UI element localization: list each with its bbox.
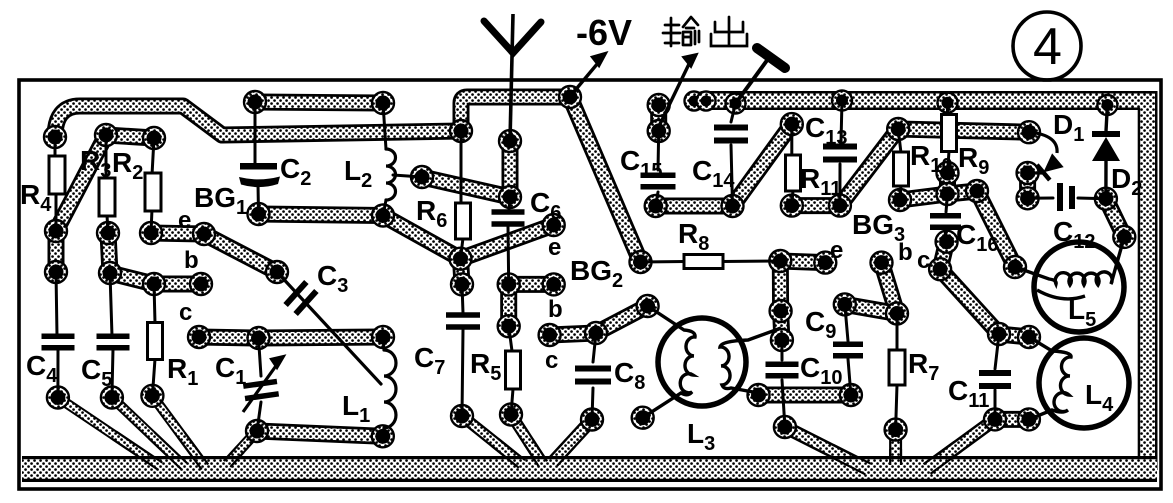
wire C13 to R10 diagonal [840, 129, 898, 206]
pad L5 link [966, 180, 988, 202]
wire R5 leads [509, 326, 513, 414]
wire C15-C14 bottom row [656, 198, 733, 215]
pad R1 bottom [141, 385, 163, 407]
pad L5 left [1004, 256, 1026, 278]
capacitor C15 [641, 173, 676, 190]
wire BG2 b row [509, 276, 554, 293]
svg-text:b: b [184, 247, 199, 274]
resistor R11 [786, 155, 801, 191]
svg-text:e: e [548, 234, 561, 261]
wire right edge band [1138, 91, 1158, 470]
pad R5 bottom [500, 404, 522, 426]
wire C10 ground wedge [785, 427, 868, 469]
wire R1 leads [152, 284, 155, 396]
wire C3 line [277, 272, 381, 384]
wire C1-L1 bottom row [257, 431, 383, 436]
wire C16 leads [945, 194, 948, 242]
capacitor C1 variable [243, 379, 279, 402]
pad antenna lower [499, 186, 521, 208]
board border frame [19, 80, 1161, 489]
capacitor C13 [823, 144, 857, 163]
pad R5 top [498, 315, 520, 337]
capacitor C4 [42, 334, 75, 351]
wire BG2 b down link [500, 284, 517, 326]
wire C5 leads [110, 273, 113, 398]
wire L1 top lead [383, 337, 384, 350]
pad L3 right link [770, 300, 792, 322]
pad junction upper [450, 248, 472, 270]
wire top -6V rail band [703, 91, 1140, 110]
wire R11 leads [792, 124, 793, 206]
resistor R3 [99, 178, 115, 216]
pad C1 top [248, 327, 270, 349]
capacitor C5 [97, 334, 130, 351]
wire C10 leads [782, 340, 785, 427]
pad C13 bottom [829, 195, 851, 217]
wire L5 left diagonal [977, 191, 1015, 267]
wire L2 to junction diagonal [383, 216, 461, 259]
svg-text:e: e [178, 207, 191, 234]
svg-text:-6V: -6V [576, 12, 632, 53]
inductor L1 coil [384, 350, 396, 428]
wire link to L5 pad [948, 191, 978, 194]
wire L2 bottom lead [383, 200, 386, 216]
wire R2 leads [151, 138, 154, 233]
pad L5 right link [1113, 226, 1135, 248]
pad L2 tap [411, 166, 433, 188]
wire BG1 e diagonal [204, 234, 277, 272]
pad BG2 b [543, 273, 565, 295]
wire C1 ground wedge [227, 431, 257, 464]
wire C13 leads [840, 101, 842, 206]
pad C4 bottom [47, 387, 69, 409]
wire R6 leads [461, 131, 464, 259]
pad C16 bottom [936, 231, 958, 253]
wire R7 leads [896, 314, 897, 430]
wire C4 ground wedge [58, 398, 160, 467]
wire C15 top pads [650, 105, 667, 131]
svg-text:b: b [898, 239, 913, 266]
pad C2 bottom [248, 203, 270, 225]
pad C14 bottom [722, 195, 744, 217]
inductor L5 [1015, 237, 1124, 332]
wire D2 to L5 diagonal [1106, 199, 1124, 237]
pad C14 top [726, 94, 746, 114]
wire long top-left trace [55, 106, 461, 137]
resistor R4 [49, 156, 65, 194]
pad R1 top [143, 273, 165, 295]
wire C4 leads [56, 272, 58, 398]
pad BG3 e [814, 252, 836, 274]
wire L1 bottom lead [383, 428, 384, 436]
svg-text:c: c [545, 347, 558, 374]
capacitor C8 [575, 366, 611, 385]
wire C2 bottom row [259, 214, 384, 216]
pad R8 right [769, 250, 791, 272]
pad R11 top [781, 113, 803, 135]
wire C16 pad link [940, 242, 947, 270]
pad c link [585, 322, 607, 344]
antenna [484, 14, 541, 141]
pad C5 top [99, 262, 121, 284]
pad R9 bottom [937, 162, 959, 184]
inductor L3 [643, 306, 781, 418]
pad C5 bottom [101, 387, 123, 409]
capacitor C16 [930, 213, 961, 230]
pad L3 upper link [637, 295, 659, 317]
wire R8 right to BG3 e [780, 261, 825, 263]
wire BG2 e diagonal [461, 225, 554, 259]
wire BG1 b row [110, 273, 201, 284]
wire R8 leads [641, 261, 781, 262]
resistor R8 [684, 255, 723, 269]
wire -6V diagonal to R8 [570, 97, 641, 262]
pad band end left [685, 92, 704, 111]
wire BG3 b row [845, 304, 897, 313]
pad R7 top [886, 303, 908, 325]
capacitor C14 [714, 125, 748, 144]
pad C4 lower [45, 261, 67, 283]
svg-text:b: b [548, 296, 563, 323]
wire R11-C13 bottom row [792, 197, 840, 214]
pad C12 right [1095, 188, 1117, 210]
pad R11 bottom [781, 195, 803, 217]
pad C15 bottom [645, 195, 667, 217]
wire C14 to R11 diagonal [733, 124, 792, 206]
pad C13 top [832, 91, 852, 111]
capacitor C9 [833, 342, 863, 359]
wire R4 leads [55, 137, 56, 231]
wire R9 bottom link [939, 173, 956, 194]
wire R10 leads [898, 129, 901, 200]
wire C12 leads [1028, 197, 1106, 201]
pad junction lower C7 [451, 273, 473, 295]
wire right edge pattern [1140, 94, 1155, 470]
capacitor C10 [766, 362, 799, 379]
pad C11 top [988, 323, 1010, 345]
wire C9 leads [845, 304, 851, 395]
wire top rail pattern [703, 94, 1145, 108]
pad R2 top [143, 127, 165, 149]
wire C6 leads [508, 197, 510, 284]
pad R8 left [630, 251, 652, 273]
wire R9 leads [948, 103, 950, 173]
wire C10 row [759, 387, 851, 404]
capacitor C2 [239, 163, 280, 187]
pad BG3 c [929, 258, 951, 280]
pad BG2 e [543, 214, 565, 236]
pad C15 upper [648, 94, 670, 116]
pad C11 bottom [984, 408, 1006, 430]
pad C10 bottom [774, 416, 796, 438]
wire L2 tap link [422, 177, 510, 197]
wire R7 ground stub [889, 430, 902, 465]
wire R6top to -6V node [461, 97, 570, 131]
wire R10 bottom row [900, 194, 948, 200]
pad D2 top [1097, 95, 1117, 115]
pad R3 top [95, 124, 117, 146]
pad C3 end [266, 261, 288, 283]
wire L2 top lead [383, 103, 386, 149]
arrow -6V [572, 63, 598, 94]
pad band end right [697, 92, 716, 111]
wire D1 pad link [1019, 173, 1036, 198]
wire R3 bottom link [108, 233, 110, 273]
pad C12 left [1017, 187, 1039, 209]
arrow C1 variable [243, 363, 278, 412]
wire C14 leads [731, 104, 736, 207]
pad R3 bottom [97, 222, 119, 244]
svg-text:4: 4 [1033, 18, 1062, 76]
wire BG1 c row [199, 337, 383, 338]
wire bottom ground band [22, 456, 1157, 482]
pad C10 row left [748, 384, 770, 406]
svg-text:c: c [179, 299, 192, 326]
pad BG1 e [193, 223, 215, 245]
capacitor C7 [446, 312, 480, 330]
wire antenna pad link [502, 141, 519, 197]
resistor R5 [506, 351, 521, 389]
wire C2 leads [255, 102, 259, 214]
pad L4 bottom link [1018, 408, 1040, 430]
pad L2 top [372, 92, 394, 114]
wire C15 leads [656, 131, 659, 206]
diode D1 [1028, 132, 1065, 180]
pad C15 lower [648, 120, 670, 142]
wire C8 leads [592, 333, 596, 420]
pad L1 bottom [372, 425, 394, 447]
wire C1 leads [257, 338, 261, 431]
pad BG2 c [539, 324, 561, 346]
wire R9-R10 mid band [898, 129, 1029, 132]
earphone tap symbol [736, 59, 769, 104]
wire R3-R2 top link [106, 135, 154, 138]
pad BG1 b [190, 273, 212, 295]
wire junction pads link [461, 259, 463, 285]
pad C8 bottom [581, 409, 603, 431]
capacitor C12 [1057, 183, 1075, 211]
wire BG3 b diagonal [882, 263, 898, 314]
wire R1 ground wedge [152, 396, 205, 467]
pad L2 bottom [372, 205, 394, 227]
resistor R7 [889, 350, 905, 385]
wire c to L3 diagonal [596, 306, 648, 333]
diode D2 [1092, 105, 1120, 199]
wire C11 leads [995, 334, 999, 419]
wire C8 ground wedge [553, 420, 592, 463]
capacitor C6 [492, 209, 525, 227]
pad C4 upper [45, 220, 67, 242]
wire R5 ground wedge [511, 415, 543, 465]
wire L2 tap lead [393, 175, 422, 177]
resistor R1 [148, 323, 163, 360]
pad C9 bottom [840, 384, 862, 406]
wire ground merge outlines [112, 432, 961, 475]
inductor L2 coil [386, 149, 396, 200]
wire BG3 e down link [780, 261, 782, 340]
wire C7 leads [462, 284, 463, 416]
resistor R6 [456, 203, 471, 239]
wire C11 ground wedge [927, 419, 995, 469]
pad R2 bottom [140, 222, 162, 244]
pad R9 top [938, 93, 958, 113]
wire R3top to C4 diagonal [56, 135, 106, 231]
pad C10 top [771, 329, 793, 351]
resistor R9 [942, 115, 957, 152]
resistor R10 [894, 152, 909, 186]
pad R7 bottom [885, 419, 907, 441]
pad C9 top [834, 293, 856, 315]
pad D1 top [1017, 162, 1039, 184]
pad antenna upper [499, 130, 521, 152]
wire C11 bottom row [995, 411, 1029, 428]
pad C6 bottom [498, 273, 520, 295]
wire BG3 c diagonal [940, 269, 999, 334]
pad R6 top [450, 120, 472, 142]
pad C7 bottom [451, 405, 473, 427]
wire R3 leads [106, 135, 108, 233]
arrow 输出 [660, 64, 689, 124]
capacitor C3 [283, 280, 318, 316]
pad -6V node [559, 86, 581, 108]
label 输出 (output) [663, 17, 747, 46]
pad R4 top [44, 126, 66, 148]
pad BG3 b [871, 252, 893, 274]
wire BG2 c row [550, 333, 596, 335]
pad R10 bottom [889, 189, 911, 211]
svg-text:c: c [917, 247, 930, 274]
wire C2 top row [255, 102, 383, 103]
pad mid band right end [1018, 121, 1040, 143]
pad C2 top [244, 91, 266, 113]
pad C16 top [937, 183, 959, 205]
wire BG1 e row [151, 233, 204, 234]
svg-text:e: e [830, 237, 843, 264]
pad R10 top [887, 118, 909, 140]
wire C11 top row [999, 334, 1029, 337]
resistor R2 [145, 173, 161, 211]
pad L3 lower link [632, 407, 654, 429]
wire C4 pad link [48, 231, 65, 272]
capacitor C11 [979, 370, 1011, 389]
figure number 4 circled [1013, 12, 1081, 80]
pad L4 top link [1018, 326, 1040, 348]
wire C5 ground wedge [112, 398, 184, 467]
pad L1 top [372, 326, 394, 348]
wire C7 ground wedge [462, 416, 522, 464]
pad BG1 c [188, 326, 210, 348]
pad C1 bottom [246, 420, 268, 442]
inductor L4 [1029, 337, 1129, 428]
